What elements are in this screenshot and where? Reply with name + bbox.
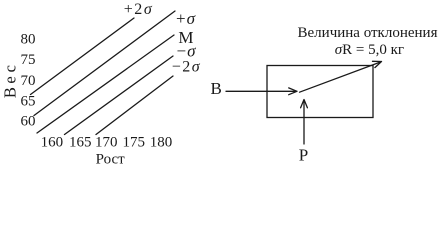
svg-text:Рост: Рост: [96, 151, 126, 166]
svg-text:70: 70: [21, 73, 36, 89]
svg-text:180: 180: [150, 135, 173, 151]
svg-text:+2σ: +2σ: [124, 1, 153, 18]
svg-text:175: 175: [123, 135, 146, 151]
svg-text:Р: Р: [299, 145, 308, 164]
svg-text:75: 75: [21, 52, 36, 68]
svg-text:65: 65: [21, 93, 36, 109]
svg-text:165: 165: [69, 135, 92, 151]
svg-text:+σ: +σ: [176, 9, 196, 28]
svg-text:σR = 5,0 кг: σR = 5,0 кг: [335, 42, 404, 58]
svg-text:80: 80: [21, 32, 36, 48]
svg-text:170: 170: [95, 135, 118, 151]
svg-text:В: В: [211, 79, 222, 98]
svg-text:Вес: Вес: [0, 62, 19, 99]
svg-text:Величина отклонения: Величина отклонения: [298, 25, 438, 41]
svg-text:160: 160: [41, 135, 64, 151]
svg-text:60: 60: [21, 114, 36, 130]
svg-text:−2σ: −2σ: [172, 59, 201, 76]
